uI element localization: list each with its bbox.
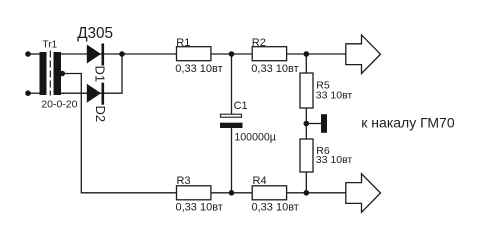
svg-text:R3: R3 — [177, 175, 191, 187]
svg-text:Д305: Д305 — [77, 25, 113, 42]
svg-text:D1: D1 — [93, 66, 108, 83]
svg-text:R2: R2 — [252, 37, 266, 49]
svg-text:0,33 10вт: 0,33 10вт — [252, 202, 299, 214]
svg-text:33 10вт: 33 10вт — [316, 154, 353, 166]
svg-text:D2: D2 — [93, 106, 108, 123]
svg-text:C1: C1 — [234, 100, 248, 112]
svg-text:Tr1: Tr1 — [43, 39, 58, 50]
svg-text:R4: R4 — [253, 175, 267, 187]
svg-text:100000µ: 100000µ — [234, 132, 275, 144]
svg-text:к накалу ГМ70: к накалу ГМ70 — [361, 114, 455, 130]
svg-text:R1: R1 — [176, 37, 190, 49]
svg-text:0,33 10вт: 0,33 10вт — [251, 63, 298, 75]
svg-text:33 10вт: 33 10вт — [316, 90, 353, 102]
svg-text:20-0-20: 20-0-20 — [41, 98, 77, 110]
svg-text:0,33 10вт: 0,33 10вт — [175, 63, 222, 75]
svg-text:0,33 10вт: 0,33 10вт — [176, 202, 223, 214]
